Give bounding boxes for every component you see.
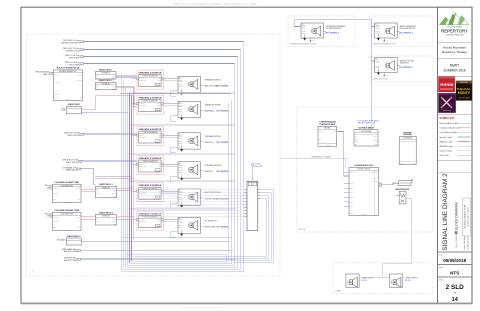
svg-text:SIDE FILL: SIDE FILL [205,171,214,173]
lobby branch wires [359,276,383,278]
svg-text:VOL: VOL [156,225,159,227]
svg-text:RADIO PACK 2: RADIO PACK 2 [99,79,112,82]
svg-text:USB Cable: USB Cable [440,155,449,157]
svg-text:SPROUT ROOM: SPROUT ROOM [373,79,388,81]
svg-text:OUT: OUT [158,193,161,195]
designer name cell (rotated) [463,198,471,236]
purple horizontal wire above row2 [120,92,231,94]
svg-text:PWR: PWR [413,162,416,164]
svg-text:Balanced Audio Cable: Balanced Audio Cable [440,122,459,125]
svg-text:IN: IN [179,190,180,192]
svg-text:Sheet: Sheet [439,278,444,281]
svg-text:SLINK: SLINK [350,183,354,185]
svg-text:CH B: CH B [96,88,99,90]
svg-text:MIC IN: MIC IN [139,135,143,137]
svg-text:OUT: OUT [158,165,161,167]
svg-text:INPUT 1-16: INPUT 1-16 [53,188,60,190]
svg-text:NET: NET [319,139,322,141]
svg-text:ROCKY'S SOUND KIT 5B: ROCKY'S SOUND KIT 5B [57,68,80,70]
svg-text:W/ CONTROL #: W/ CONTROL # [399,67,414,69]
svg-text:MEN'S DRESSING ROOM: MEN'S DRESSING ROOM [373,44,396,46]
bottom bundle corner bends [122,271,244,273]
svg-text:POWERCON: POWERCON [102,187,110,189]
svg-text:RF OUT 2: RF OUT 2 [76,80,82,82]
svg-text:SLINK: SLINK [350,206,354,208]
svg-text:LINE LOOP: LINE LOOP [139,80,146,82]
svg-text:RADIO PACK 1: RADIO PACK 1 [99,68,112,71]
svg-text:W/ CONTROL: W/ CONTROL [217,171,230,173]
svg-text:VOL: VOL [156,170,159,172]
svg-text:W/ VOL: W/ VOL [362,280,368,282]
svg-text:MIX OUT: MIX OUT [53,193,58,195]
lobby speaker 1 [346,274,359,287]
svg-text:W/ CONTROL: W/ CONTROL [217,111,230,113]
svg-text:LINE LOOP: LINE LOOP [139,136,146,138]
svg-text:MIC IN: MIC IN [139,219,143,221]
svg-text:CROSSOVER: CROSSOVER [205,198,218,200]
svg-text:LINE LOOP: LINE LOOP [139,221,146,223]
svg-text:2 SLD: 2 SLD [446,284,464,291]
svg-text:Downloaded from signal diagram: Downloaded from signal diagrams archive [183,306,225,309]
svg-text:PWR LINK: PWR LINK [54,94,60,96]
logo mountains [440,12,469,25]
svg-text:IN: IN [375,24,376,26]
monitor row 4 group [128,153,237,182]
console to interface wire [382,183,396,185]
svg-text:Unbalanced Audio Cable: Unbalanced Audio Cable [440,127,461,130]
purple horizontals upper left [95,176,132,178]
svg-text:COLORADO A/LAMP TUNE: COLORADO A/LAMP TUNE [55,181,80,184]
svg-text:ONBOARD 3 MONITOR: ONBOARD 3 MONITOR [139,96,162,99]
monitor row 2 group [128,93,237,122]
svg-text:Annie: Annie [440,82,454,88]
svg-text:RADIO PACK 3: RADIO PACK 3 [99,183,112,186]
svg-text:MAIN RACK: MAIN RACK [66,169,77,172]
svg-text:Com (different kinds): Com (different kinds) [440,131,458,134]
svg-text:X32 PRODUCER: X32 PRODUCER [361,131,371,133]
poster: purple show [438,93,456,113]
monitor row 1 group [132,70,230,96]
room feed wires [294,20,371,122]
red wires radio pack rows to bundle [117,188,134,190]
svg-text:IN: IN [179,102,180,104]
svg-text:PIT MONITOR: PIT MONITOR [205,221,218,223]
DSP rack block [247,181,258,230]
svg-text:RADIO PACK: RADIO PACK [68,103,80,106]
svg-text:POWERCON: POWERCON [102,216,110,218]
svg-text:Rocky Mountain: Rocky Mountain [443,46,465,50]
svg-text:OUT 2: OUT 2 [112,88,116,90]
svg-text:OUT: OUT [158,136,161,138]
svg-text:OUT 1: OUT 1 [374,136,378,138]
svg-text:NET: NET [53,227,56,229]
svg-text:OUT 2: OUT 2 [374,139,378,141]
svg-text:PAIR 1: PAIR 1 [43,73,49,76]
svg-text:RMRT: RMRT [450,64,459,68]
svg-text:PWR: PWR [374,144,377,146]
svg-text:OUT: OUT [158,80,161,82]
sheet cell [438,276,473,278]
svg-text:CH B: CH B [96,192,99,194]
svg-text:GND: GND [386,74,389,76]
svg-text:VOL: VOL [156,84,159,86]
svg-text:RADIO PACK 5: RADIO PACK 5 [67,235,80,238]
svg-text:LINE LOOP: LINE LOOP [139,105,146,107]
svg-text:OUT: OUT [158,221,161,223]
svg-text:BOOTH: BOOTH [299,229,306,231]
svg-text:WOMEN'S DRESSING ROOM: WOMEN'S DRESSING ROOM [290,44,316,46]
svg-text:POWER: POWER [325,145,330,147]
svg-text:USB: USB [78,199,81,201]
DSP right pins [258,188,260,190]
title block column [437,7,439,303]
svg-text:USB: USB [334,130,337,132]
svg-text:USB: USB [78,227,81,229]
svg-text:POWER IN: POWER IN [64,230,70,232]
svg-text:SLINK: SLINK [350,201,354,203]
svg-text:PWR: PWR [158,78,161,80]
lobby dashed boundary [333,262,433,294]
svg-text:NET: NET [80,97,83,99]
left vertical wire bundle [121,77,123,271]
svg-text:QU-SB MIXER UNIT: QU-SB MIXER UNIT [60,214,73,216]
svg-text:MONTY: MONTY [458,91,471,95]
console left pin stubs [344,183,349,185]
svg-text:Rev 2 - 05/06/18: Rev 2 - 05/06/18 [456,234,458,247]
svg-text:POWER IN: POWER IN [361,214,367,216]
extra bus horizontals bottom [123,237,232,239]
svg-text:IN: IN [302,24,303,26]
svg-text:MIC IN: MIC IN [139,164,143,166]
svg-text:PWR: PWR [158,164,161,166]
svg-text:ROOM MONITOR: ROOM MONITOR [326,28,342,30]
scale cell [438,264,473,266]
svg-text:OUT 2: OUT 2 [112,192,116,194]
svg-text:USB B: USB B [350,213,354,215]
amp: mens dressing room monitor [375,23,398,38]
svg-text:MAIN RAIL: MAIN RAIL [205,110,214,113]
svg-text:Drawn: Jody Sekas: Drawn: Jody Sekas [463,236,466,251]
svg-text:SPEAKER ZONE 1: SPEAKER ZONE 1 [205,79,221,82]
console right pin connector [379,183,382,186]
svg-text:SHURE BLX4 UHF-R: SHURE BLX4 UHF-R [61,42,80,44]
date cell [438,251,473,253]
svg-text:W/ CONTROL: W/ CONTROL [217,227,230,229]
svg-text:LINE LOOP: LINE LOOP [139,193,146,195]
interface to lobby wire [383,199,412,277]
svg-text:VOL: VOL [156,141,159,143]
svg-text:W/ CONTROL #: W/ CONTROL # [399,33,414,35]
svg-text:MTX 1-2: MTX 1-2 [373,177,378,179]
svg-text:POWERCON: POWERCON [102,73,110,75]
svg-text:RF OUT 1: RF OUT 1 [76,74,82,76]
svg-text:IN 1: IN 1 [355,136,358,138]
svg-text:BLOCK DIAGRAM: BLOCK DIAGRAM [455,202,459,230]
svg-text:PWR: PWR [158,135,161,137]
svg-text:Sound Supervisor: Sound Supervisor [467,236,470,250]
svg-text:IN 2: IN 2 [355,139,358,141]
svg-text:OUT 2: OUT 2 [112,221,116,223]
svg-text:MIC IN: MIC IN [139,103,143,105]
svg-text:SHURE ULXD4: SHURE ULXD4 [66,50,79,52]
interface block small [399,181,411,186]
wires from radio packs to monitor rows [116,74,137,76]
svg-text:SIGNAL LINE DIAGRAM 2: SIGNAL LINE DIAGRAM 2 [442,173,449,251]
svg-text:VOL: VOL [156,109,159,111]
svg-text:Jeff Davis, Michael Smith: Jeff Davis, Michael Smith [464,204,467,229]
svg-text:ST OUT: ST OUT [76,188,81,190]
season cell [438,75,473,77]
svg-text:Network Cable: Network Cable [440,149,452,152]
room: mens dressing room [371,16,433,47]
svg-text:OUT 1: OUT 1 [112,218,116,220]
svg-text:ONBOARD 5 MONITOR: ONBOARD 5 MONITOR [139,157,162,160]
svg-text:LINE LOOP: LINE LOOP [139,165,146,167]
svg-text:ONBOARD 7 MONITOR: ONBOARD 7 MONITOR [139,212,162,215]
svg-text:CH B: CH B [96,221,99,223]
svg-text:GND: GND [312,40,315,42]
symbol key [438,114,473,116]
computer to console wire [337,132,349,177]
svg-text:W/ CONTROL: W/ CONTROL [217,198,230,200]
monitor row 6 group [128,209,237,238]
svg-text:AVB/Digi Cable: AVB/Digi Cable [440,140,453,143]
svg-text:PLAYBACK MAIN: PLAYBACK MAIN [320,123,336,126]
svg-text:IN: IN [375,59,376,61]
macbook block [404,132,411,134]
svg-text:ALLEN&HEATH SQ-5: ALLEN&HEATH SQ-5 [355,164,374,167]
svg-text:LOBBY: LOBBY [335,291,342,293]
svg-text:USB: USB [400,162,403,164]
svg-text:ONSTAGE MONS L: ONSTAGE MONS L [205,135,222,138]
logo cell: Rocky Mountain Repertory Theatre logo [438,41,473,43]
svg-text:MONITOR: MONITOR [400,63,410,65]
svg-text:DC IN: DC IN [54,97,58,99]
amp: sprout room monitor [375,58,398,73]
svg-text:OUT 1: OUT 1 [112,190,116,192]
svg-text:QU-SB MIXER UNIT: QU-SB MIXER UNIT [60,185,73,187]
svg-text:RADIO PACK 4: RADIO PACK 4 [99,211,113,214]
svg-text:GND: GND [386,40,389,42]
svg-text:Sound Designer / Engineer: Sound Designer / Engineer [467,206,470,227]
svg-text:BELT PACK: BELT PACK [69,63,80,66]
svg-text:POWER: POWER [66,99,71,101]
svg-text:RACK UNIT B: RACK UNIT B [66,161,79,164]
svg-text:IN: IN [179,218,180,220]
wire [84,49,241,51]
svg-text:X32 RACK MIXER: X32 RACK MIXER [358,127,374,130]
svg-text:IN: IN [179,134,180,136]
svg-text:BELT PACK: BELT PACK [69,56,80,59]
svg-text:MAC/INTERFACE: MAC/INTERFACE [395,188,410,191]
wires big1-rp3 [81,188,96,190]
wires from RP0 [81,96,133,110]
svg-text:SLINK: SLINK [350,197,354,199]
svg-text:RMRT Summer 2018 Signal Line: RMRT Summer 2018 Signal Line Diagram - B… [174,2,257,6]
svg-text:RACK UNIT A: RACK UNIT A [68,134,81,137]
wires big2-rp4 [81,216,96,218]
svg-text:SUMMER 2018: SUMMER 2018 [443,69,465,73]
poster: The Full Monty (dark/yellow) [456,81,472,101]
svg-text:05/06/2018: 05/06/2018 [443,258,466,263]
svg-text:footloose: footloose [443,109,452,112]
svg-text:BACKSTAGE MON: BACKSTAGE MON [205,191,222,194]
monitor row 5 group [128,180,237,209]
booth dashed boundary [297,107,434,232]
svg-text:SYMBOL KEY: SYMBOL KEY [440,118,456,120]
svg-text:W/ CONTROL: W/ CONTROL [217,86,230,88]
right vertical wire bundle [243,42,245,272]
stage dashed boundary [27,34,281,276]
svg-text:NTS: NTS [450,270,459,275]
svg-text:MIC IN: MIC IN [139,78,143,80]
svg-text:FOH MIX CONSOLE: FOH MIX CONSOLE [358,168,371,170]
theatre name cell [438,57,473,59]
poster: Annie (red) [438,77,455,93]
svg-text:PWR: PWR [158,103,161,105]
svg-text:W/ VOL: W/ VOL [405,280,411,282]
DSP top node wire [252,164,254,166]
svg-text:POWER IN: POWER IN [64,202,70,204]
svg-text:NET: NET [355,144,358,146]
svg-text:TRAVELER MONS: TRAVELER MONS [205,104,222,107]
svg-text:ONBOARD 6 MONITOR: ONBOARD 6 MONITOR [139,184,162,187]
svg-text:14: 14 [452,297,459,303]
wire [84,56,238,58]
svg-text:Repertory Theatre: Repertory Theatre [442,50,467,54]
svg-text:ST OUT: ST OUT [76,216,81,218]
svg-text:IN: IN [179,77,180,79]
wire [84,63,235,65]
red vertical line left [133,95,135,240]
DSP right pin wires down to bottom bus [233,190,274,263]
svg-text:SLINK: SLINK [350,192,354,194]
svg-text:Scale: Scale [439,267,444,269]
svg-text:VIA CAT5 SNAKE LINE: VIA CAT5 SNAKE LINE [358,122,377,125]
svg-text:COLORADO B/LAMP TUNE: COLORADO B/LAMP TUNE [55,209,80,212]
svg-text:OUT 1-2: OUT 1-2 [319,130,324,132]
purple vertical bundle line 2 [131,95,133,261]
svg-text:W/ CONTROL: W/ CONTROL [217,142,230,144]
svg-text:BACKUP LINE: BACKUP LINE [64,259,77,262]
DSP left pin comb + fan wires [245,188,247,190]
svg-text:PWR: PWR [158,219,161,221]
room: womens dressing room [288,16,355,47]
svg-text:W/ CONTROL #: W/ CONTROL # [326,33,341,35]
svg-text:NET: NET [53,199,56,201]
svg-text:SLINK: SLINK [350,188,354,190]
svg-text:AES/EBU Cable: AES/EBU Cable [440,145,454,148]
svg-text:IN: IN [179,163,180,165]
svg-text:BACKUP LINE: BACKUP LINE [64,250,77,253]
svg-text:KEYS ZONE: KEYS ZONE [205,227,217,229]
svg-text:REPERTORY: REPERTORY [441,28,468,33]
wire [84,41,244,43]
svg-text:Date: Date [439,253,443,256]
svg-text:OUT: OUT [158,105,161,107]
svg-text:ONSTAGE MONS R: ONSTAGE MONS R [205,164,223,167]
svg-text:SIDE FILL: SIDE FILL [205,142,214,144]
stage line into console [280,157,349,159]
svg-text:MIX OUT: MIX OUT [53,221,58,223]
monitor row 3 group [128,124,237,153]
lobby speaker 2 [390,274,403,287]
svg-text:AUX LINE: AUX LINE [255,165,264,168]
svg-text:ROOM MONITOR: ROOM MONITOR [400,28,416,30]
svg-text:OUT 1: OUT 1 [112,86,116,88]
svg-text:OUT 1: OUT 1 [112,75,116,77]
amp: womens dressing room monitor [301,23,324,38]
svg-text:INPUT 1-16: INPUT 1-16 [53,216,60,218]
svg-text:ONBOARD 4 MONITOR: ONBOARD 4 MONITOR [139,128,162,131]
svg-text:POWERCON: POWERCON [102,83,110,85]
room: sprout room [371,56,433,82]
svg-text:Speaker Cable: Speaker Cable [440,136,453,139]
svg-text:ONBOARD 2 MONITOR: ONBOARD 2 MONITOR [139,71,162,74]
